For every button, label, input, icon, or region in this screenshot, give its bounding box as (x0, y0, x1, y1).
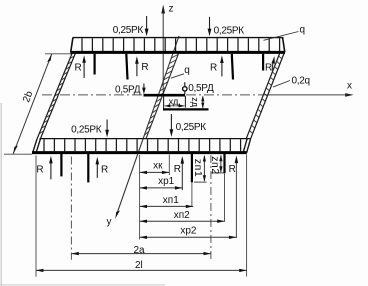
xn2 dimension (140, 220, 225, 223)
svg-text:x: x (347, 81, 352, 92)
q label middle with leader (171, 65, 190, 78)
svg-text:zд: zд (190, 97, 200, 108)
2b dimension line (13, 54, 52, 154)
load arrow 0,25PK upper-right (208, 17, 212, 36)
q label top with leader (264, 25, 306, 41)
svg-text:0,5РД: 0,5РД (188, 83, 214, 94)
svg-text:0,25РК: 0,25РК (113, 25, 144, 36)
lower load strip top line (40, 138, 251, 140)
upper strip hatching (82, 38, 280, 51)
load arrow 0,25PK lower-left (105, 120, 109, 138)
svg-text:2l: 2l (135, 260, 143, 271)
xd box left wall (163, 96, 165, 108)
load arrow 0,25PK upper-left (145, 16, 149, 36)
svg-text:q: q (300, 25, 306, 36)
upper load strip top line (73, 37, 284, 39)
svg-text:R: R (265, 63, 272, 74)
R force arrow top-3 (220, 55, 224, 76)
scan artifact left border (0, 103, 2, 286)
depth level bold line of point D (163, 108, 209, 110)
point D vertical line (184, 82, 186, 86)
svg-text:хк: хк (153, 161, 163, 172)
svg-text:R: R (74, 62, 81, 73)
extension line for xk (168, 155, 170, 176)
svg-text:хр1: хр1 (158, 176, 175, 187)
force line bottom-2 (87, 154, 89, 182)
lower strip hatching (44, 139, 241, 151)
R force arrow top-1 (82, 55, 86, 78)
svg-text:0,2q: 0,2q (292, 76, 310, 87)
svg-text:хп1: хп1 (163, 195, 179, 206)
svg-text:0,25РК: 0,25РК (71, 124, 102, 135)
xn1 dimension (140, 205, 194, 208)
0,5PD left down arrow (142, 84, 146, 95)
plate right edge (246, 54, 284, 139)
0,2q label with leader (273, 76, 310, 87)
load arrow 0,25PK lower-right (170, 114, 174, 137)
svg-text:R: R (174, 164, 181, 175)
xp1 dimension (140, 186, 183, 189)
svg-text:R: R (101, 165, 108, 176)
zp1 dimension line (203, 155, 206, 182)
svg-text:R: R (141, 62, 148, 73)
force line top-2 (126, 54, 127, 80)
2l dimension (36, 269, 247, 272)
2b top extension line (45, 53, 71, 55)
svg-text:R: R (36, 165, 43, 176)
dash-dot axis line right half (210, 155, 212, 260)
force line bottom-4 with zp2 depth (223, 154, 225, 222)
middle line hatch ticks (144, 54, 178, 135)
svg-text:хр2: хр2 (180, 226, 197, 237)
y axis (115, 36, 179, 219)
left edge hatch ticks (39, 56, 74, 134)
svg-text:0,25РК: 0,25РК (176, 122, 207, 133)
xd dimension arrows (164, 104, 185, 107)
R force arrow top-2 (135, 56, 139, 76)
zd dimension line with arrows (201, 96, 204, 109)
svg-text:0,5РД: 0,5РД (115, 84, 141, 95)
scan artifact bottom border (0, 284, 165, 286)
svg-text:zп1: zп1 (192, 159, 204, 178)
x axis (42, 93, 354, 97)
xd box right wall (184, 96, 186, 108)
R force arrow bottom-1 (49, 156, 53, 180)
lower load strip bottom bold line (32, 151, 247, 154)
R force arrow bottom-3 (181, 156, 185, 190)
force line bottom-3 with zp1 depth (191, 154, 193, 207)
extension line center (xk xp1 xp1 xp2 xp2 start) (139, 155, 141, 240)
force line top-3 (232, 54, 233, 80)
2a dimension (71, 252, 211, 255)
bold x-axis segment at center (144, 94, 186, 97)
svg-text:R: R (210, 63, 217, 74)
upper load strip bottom bold line (70, 51, 285, 54)
plate left edge (37, 54, 75, 140)
extension line 2l left (35, 156, 37, 277)
xk dimension (140, 171, 170, 174)
z axis (161, 5, 165, 96)
right edge hatch ticks (249, 56, 282, 134)
svg-text:z: z (169, 4, 174, 15)
svg-text:хп2: хп2 (174, 210, 190, 221)
point D circle (183, 87, 187, 91)
force line top-1 (93, 54, 95, 75)
lower strip right end (243, 139, 251, 153)
plate middle oblique line (146, 53, 179, 139)
upper strip left end (71, 38, 73, 52)
svg-text:0,25РК: 0,25РК (214, 25, 245, 36)
force line top-4 (262, 54, 264, 71)
svg-text:y: y (107, 217, 112, 228)
svg-text:2a: 2a (133, 245, 145, 256)
svg-text:R: R (229, 164, 236, 175)
zp2 bottom tick (211, 172, 223, 174)
zp1 bottom tick (194, 181, 207, 183)
dash-dot axis line left half (70, 157, 72, 260)
svg-text:q: q (184, 65, 190, 76)
svg-text:zп2: zп2 (209, 156, 221, 175)
extension line 2l right (246, 155, 248, 277)
lower strip left end (33, 139, 41, 153)
R force arrow bottom-2 (96, 157, 100, 178)
R force arrow top-4 (271, 56, 275, 70)
xp2 dimension (140, 236, 237, 239)
2b bottom extension line (4, 153, 32, 155)
R force arrow bottom-4 (235, 156, 239, 239)
zp2 dimension line (219, 155, 222, 173)
force line bottom-1 (60, 154, 62, 176)
upper strip right end (283, 38, 285, 52)
